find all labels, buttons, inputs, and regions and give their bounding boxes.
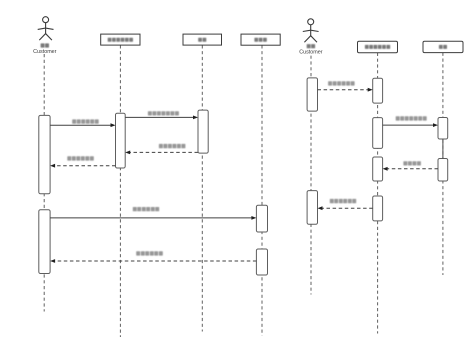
lifeline HotelSystem-left <box>119 45 121 337</box>
activation bar HotelSystem-right 3 <box>373 157 383 181</box>
label 返回订房信息 <box>136 251 163 255</box>
message 返回满房 (return) <box>383 167 438 171</box>
participant box 管理员 <box>241 34 280 45</box>
svg-text:Customer: Customer <box>299 49 323 55</box>
svg-text:Customer: Customer <box>33 49 57 55</box>
label 管理员 title <box>254 38 266 42</box>
label 酒店管理系统 (left) title <box>108 38 133 42</box>
activation bar Customer-left 1 <box>39 115 50 193</box>
label Customer-right name 客户 <box>307 44 315 48</box>
lifeline Admin-left <box>261 45 263 335</box>
wire Room-right activation connector <box>442 139 444 159</box>
message 查询是否有空房 <box>383 123 438 127</box>
label 酒店管理系统 (right) title <box>365 45 390 49</box>
participant box 房间 (left) <box>183 34 222 45</box>
activation bar Room-right 2 <box>438 159 448 182</box>
label 进入订房页面 <box>72 119 99 123</box>
activation bar Room-right 1 <box>438 118 448 140</box>
label 返回房间信息 a <box>159 144 186 148</box>
activation bar HotelSystem-right 2 <box>373 118 383 149</box>
activation bar HotelSystem-left <box>116 113 126 168</box>
label 房间 (left) title <box>198 38 206 42</box>
label 返回订房失败 <box>330 199 356 203</box>
message 提交订房信息 <box>50 216 256 220</box>
label 房间 (right) title <box>439 45 447 49</box>
message 返回房间信息 room->sys (return) <box>125 151 198 155</box>
label 进入订房系统 <box>328 81 355 85</box>
lifeline Customer-left <box>43 54 45 312</box>
activation bar HotelSystem-right 1 <box>373 78 383 103</box>
label 返回房间信息 b <box>67 156 94 160</box>
label 查询是否有空房 <box>396 116 427 120</box>
participant box 酒店管理系统 (right) <box>358 41 398 53</box>
lifeline Room-right <box>442 53 444 275</box>
message 进入订房页面 <box>50 123 115 127</box>
message 进入订房系统 (return) <box>318 88 373 92</box>
message 查询是否有房间 <box>125 116 198 120</box>
participant box 房间 (right) <box>423 41 463 52</box>
lifeline Customer-right <box>310 56 312 295</box>
activation bar Admin 2 <box>256 249 267 275</box>
activation bar Customer-left 2 <box>39 210 50 274</box>
participant box 酒店管理系统 (left) <box>101 34 140 45</box>
lifeline Room-left <box>201 45 203 331</box>
activation bar Admin 1 <box>256 205 267 232</box>
activation bar HotelSystem-right 4 <box>373 196 383 221</box>
lifeline HotelSystem-right <box>377 53 379 334</box>
activation bar Room-left <box>198 110 208 153</box>
actor Customer-right <box>303 19 319 42</box>
message 返回订房失败 (return) <box>318 206 373 210</box>
label 返回满房 <box>403 161 421 165</box>
label Customer-left name 客户 <box>41 43 49 47</box>
label 提交订房信息 <box>133 207 159 211</box>
activation bar Customer-right 1 <box>307 78 317 111</box>
activation bar Customer-right 2 <box>307 191 317 225</box>
actor Customer-left <box>38 17 54 40</box>
message 返回房间信息 sys->cust (return) <box>50 164 115 168</box>
message 返回订房信息 (return) <box>50 259 256 263</box>
label 查询是否有房间 <box>148 111 179 115</box>
